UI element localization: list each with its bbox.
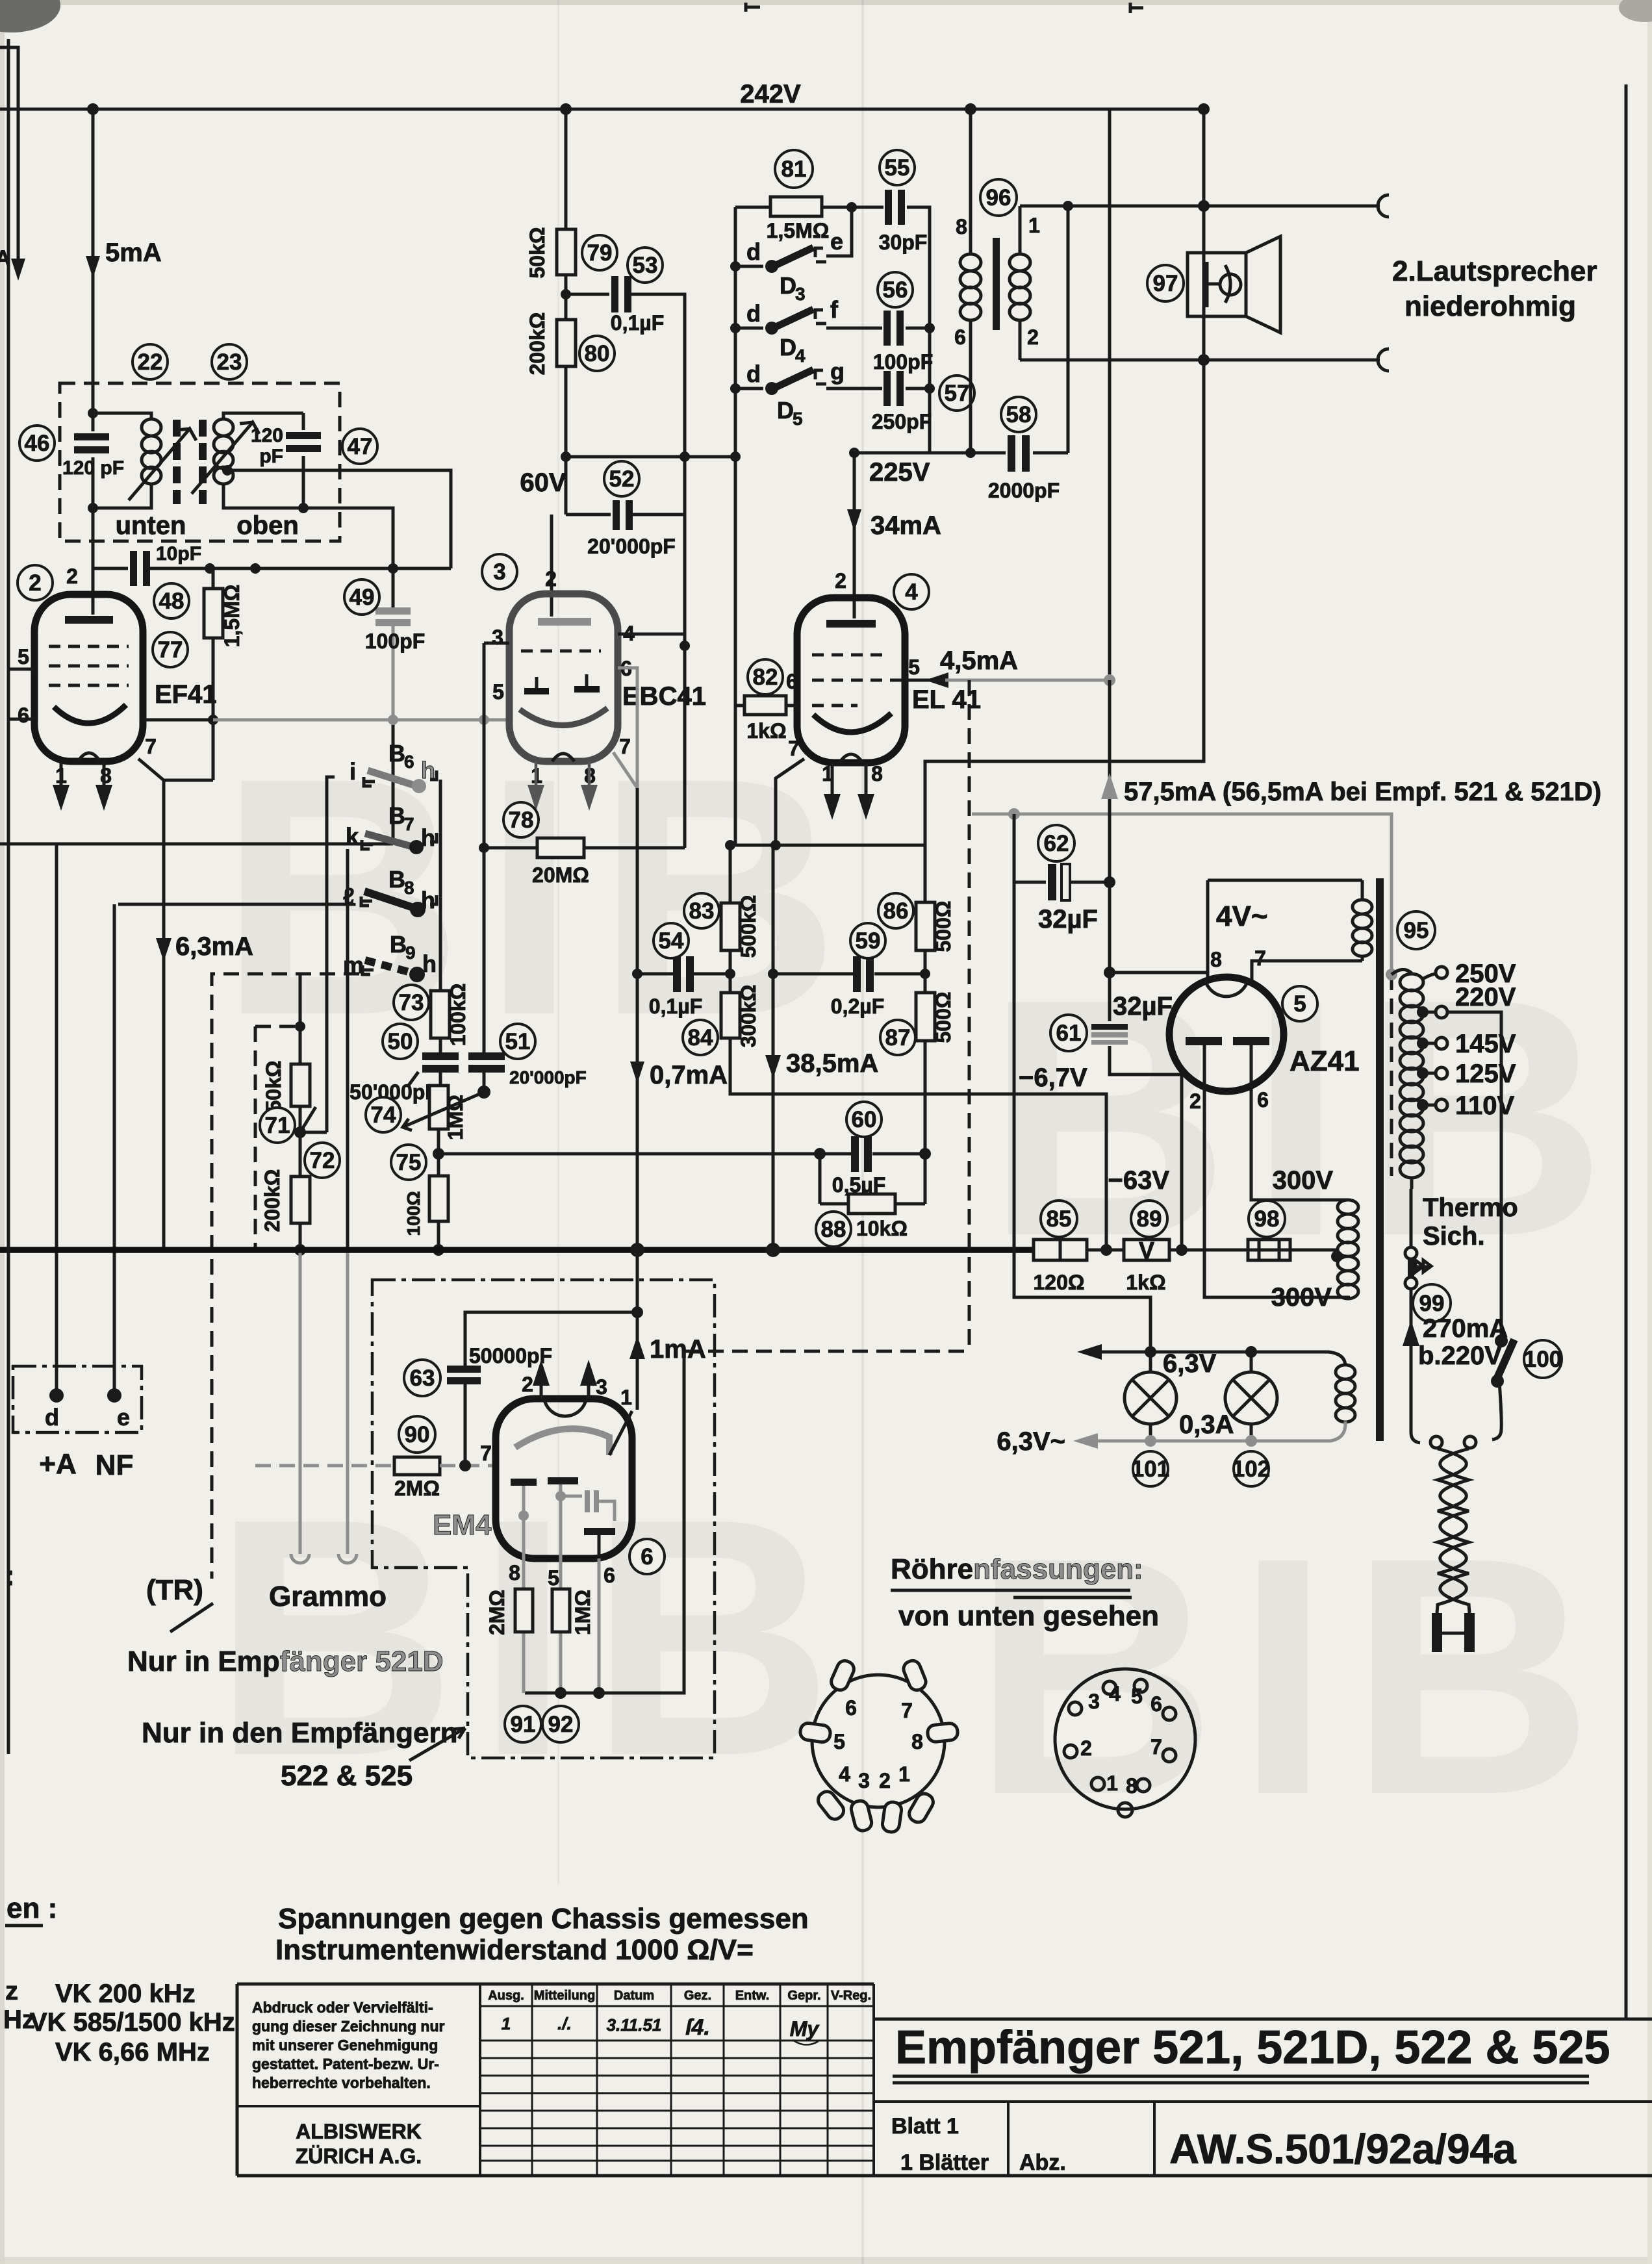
octal socket bbox=[1055, 1669, 1195, 1817]
wire B8 line to left bbox=[118, 903, 354, 904]
mains plug bbox=[1437, 1613, 1469, 1652]
node bus x462 bbox=[294, 1244, 306, 1256]
svg-text:+A: +A bbox=[39, 1448, 76, 1480]
svg-text:3: 3 bbox=[492, 626, 503, 649]
capacitor C52 20000pF bbox=[611, 500, 633, 530]
svg-text:56: 56 bbox=[883, 277, 908, 303]
capacitor C61 32uF bbox=[1110, 973, 1182, 1250]
svg-text:50kΩ: 50kΩ bbox=[526, 227, 549, 278]
wire 57.5mA arrow bbox=[1108, 680, 1112, 814]
svg-text:niederohmig: niederohmig bbox=[1404, 290, 1576, 322]
twisted mains flex bbox=[1437, 1449, 1466, 1613]
wire B switch right rail bbox=[439, 786, 442, 991]
inductor HV winding upper 300V bbox=[1338, 1200, 1358, 1256]
revision table columns bbox=[480, 1984, 874, 2176]
svg-text:NF: NF bbox=[95, 1449, 134, 1481]
svg-text:57,5mA (56,5mA bei Empf. 521: 57,5mA (56,5mA bei Empf. 521 & 521D) bbox=[1124, 778, 1601, 806]
svg-text:5: 5 bbox=[548, 1566, 559, 1590]
svg-text:61: 61 bbox=[1056, 1021, 1082, 1046]
tap 250V bbox=[1421, 974, 1436, 980]
wire HT filter node column bbox=[1014, 814, 1150, 1352]
svg-text:0,7mA: 0,7mA bbox=[650, 1061, 728, 1089]
svg-text:5: 5 bbox=[1131, 1685, 1143, 1708]
node junction R81 right C55 bbox=[846, 202, 857, 212]
wire AZ41 pin2 HT out bbox=[1204, 1089, 1350, 1297]
svg-text:Nur in Empfänger 521D: Nur in Empfänger 521D bbox=[127, 1646, 444, 1677]
svg-text:heberrechte vorbehalten.: heberrechte vorbehalten. bbox=[252, 2074, 431, 2091]
tap 110V bbox=[1417, 1099, 1429, 1111]
svg-text:1MΩ: 1MΩ bbox=[571, 1590, 594, 1635]
svg-text:k: k bbox=[346, 823, 359, 850]
svg-text:4: 4 bbox=[1109, 1682, 1121, 1705]
svg-text:8: 8 bbox=[1210, 948, 1222, 971]
EM4 target arc gray bbox=[515, 1429, 609, 1455]
svg-text:3: 3 bbox=[1088, 1690, 1100, 1713]
svg-text:1kΩ: 1kΩ bbox=[1126, 1271, 1165, 1294]
svg-text:32µF: 32µF bbox=[1038, 905, 1098, 934]
svg-text:100pF: 100pF bbox=[873, 350, 933, 374]
svg-text:1kΩ: 1kΩ bbox=[746, 719, 786, 743]
svg-text:3: 3 bbox=[795, 284, 806, 304]
page border right bbox=[1625, 84, 1628, 2020]
wire AZ41 pin6 to HV winding top bbox=[1251, 1090, 1348, 1200]
EM4 top bump bbox=[544, 1400, 586, 1416]
svg-text:57: 57 bbox=[945, 381, 970, 406]
node junction primary pin6 bbox=[965, 448, 976, 458]
svg-text:5: 5 bbox=[492, 680, 504, 704]
svg-text:8: 8 bbox=[911, 1730, 923, 1753]
AZ41 filament arc bbox=[1205, 980, 1248, 997]
node junction cap53 wire at y703 bbox=[680, 452, 690, 462]
wire 220V feed to switch bbox=[1447, 1012, 1501, 1341]
tube AZ41 V5 bbox=[1169, 977, 1284, 1091]
loudspeaker LS97 bbox=[1188, 253, 1246, 316]
node rail D3 bbox=[730, 261, 741, 272]
svg-text:120Ω: 120Ω bbox=[1033, 1271, 1084, 1294]
svg-text:2: 2 bbox=[879, 1769, 891, 1792]
node C51 to wiper bbox=[477, 1086, 490, 1099]
capacitor C56 100pF bbox=[882, 311, 906, 346]
svg-text:Röhrenfassungen:: Röhrenfassungen: bbox=[891, 1553, 1143, 1585]
capacitor C55 30pF bbox=[883, 190, 907, 225]
resistor R48 1.5M bbox=[212, 568, 215, 780]
svg-text:89: 89 bbox=[1137, 1206, 1162, 1232]
svg-text:AZ41: AZ41 bbox=[1290, 1045, 1360, 1077]
svg-text:6: 6 bbox=[404, 752, 414, 772]
svg-text:270mA: 270mA bbox=[1423, 1314, 1508, 1343]
revision header row bbox=[488, 1989, 871, 2003]
svg-text:6: 6 bbox=[1257, 1088, 1269, 1112]
svg-text:D: D bbox=[780, 272, 796, 299]
svg-text:Sich.: Sich. bbox=[1423, 1222, 1485, 1251]
svg-text:2: 2 bbox=[835, 569, 846, 592]
svg-text:V-Reg.: V-Reg. bbox=[831, 1989, 871, 2003]
svg-text:8: 8 bbox=[509, 1561, 520, 1584]
svg-text:62: 62 bbox=[1044, 831, 1069, 856]
page corner tick marks bbox=[746, 3, 1143, 13]
svg-text:AW.S.501/92a/94a: AW.S.501/92a/94a bbox=[1169, 2126, 1516, 2172]
EM4 pin1 diagonal bbox=[609, 1411, 632, 1455]
node bus x675 bbox=[433, 1244, 444, 1256]
resistor R80 200k bbox=[557, 320, 576, 366]
svg-text:9: 9 bbox=[405, 943, 416, 963]
svg-text:Hz: Hz bbox=[3, 2005, 35, 2034]
svg-text:2MΩ: 2MΩ bbox=[485, 1590, 509, 1635]
wire B9 dashed to TR bbox=[212, 974, 359, 1579]
tube EF41 V2 bbox=[34, 594, 143, 761]
tube EL41 V4 bbox=[797, 598, 905, 763]
wire EM4 supply loop bbox=[465, 1250, 637, 1466]
resistor R90 2M on grid line bbox=[255, 1464, 394, 1468]
wire screen divider R79 R80 chain bbox=[565, 109, 568, 515]
wire AVC return via C49 column bbox=[0, 720, 393, 844]
svg-text:46: 46 bbox=[25, 431, 50, 456]
svg-text:VK 200 kHz: VK 200 kHz bbox=[55, 1979, 196, 2008]
wire EF41 cathode arrows pins 1 8 bbox=[61, 761, 104, 787]
svg-text:49: 49 bbox=[349, 585, 375, 610]
svg-text:Blatt 1: Blatt 1 bbox=[891, 2114, 959, 2139]
svg-text:7: 7 bbox=[404, 814, 414, 834]
lamp LA102 bbox=[1250, 1352, 1253, 1441]
node rail y703 bbox=[730, 452, 741, 462]
svg-text:500Ω: 500Ω bbox=[932, 991, 955, 1043]
svg-text:Ausg.: Ausg. bbox=[488, 1989, 524, 2003]
svg-text:53: 53 bbox=[633, 253, 658, 278]
thermo fuse bbox=[1410, 1189, 1413, 1247]
node R83 R84 bbox=[725, 969, 735, 979]
resistor R84 300k bbox=[721, 993, 740, 1038]
wire 242V bus bbox=[0, 109, 1204, 680]
svg-text:0,1µF: 0,1µF bbox=[649, 995, 702, 1018]
svg-text:3: 3 bbox=[596, 1375, 607, 1399]
svg-text:220V: 220V bbox=[1455, 983, 1516, 1011]
resistor R85 120 on bus bbox=[1034, 1240, 1087, 1260]
EF41 cathode bbox=[54, 705, 126, 723]
tube EM4 V6 bbox=[496, 1399, 632, 1558]
svg-text:98: 98 bbox=[1254, 1206, 1280, 1232]
svg-text:300V: 300V bbox=[1271, 1283, 1332, 1312]
wire feedback row bbox=[735, 844, 925, 847]
svg-text:Grammo: Grammo bbox=[269, 1581, 387, 1612]
transformer T96 core bbox=[993, 238, 1000, 330]
svg-text:100pF: 100pF bbox=[365, 630, 425, 653]
svg-text:22: 22 bbox=[138, 350, 163, 375]
svg-text:B: B bbox=[388, 802, 405, 829]
switch D5 bbox=[735, 370, 826, 388]
svg-text:1: 1 bbox=[898, 1762, 910, 1786]
svg-text:EM4: EM4 bbox=[433, 1509, 492, 1541]
svg-text:e: e bbox=[117, 1404, 130, 1431]
inductor L23 secondary bbox=[223, 413, 303, 508]
svg-text:85: 85 bbox=[1047, 1206, 1072, 1232]
resistor R81 1.5M bbox=[770, 197, 822, 216]
svg-text:V: V bbox=[1139, 1237, 1154, 1264]
svg-text:ZÜRICH A.G.: ZÜRICH A.G. bbox=[296, 2144, 422, 2168]
svg-text:Datum: Datum bbox=[614, 1989, 654, 2003]
svg-text:2: 2 bbox=[1189, 1089, 1201, 1113]
svg-text:g: g bbox=[830, 358, 845, 385]
svg-text:1 Blätter: 1 Blätter bbox=[900, 2150, 989, 2175]
svg-text:120 pF: 120 pF bbox=[62, 457, 124, 479]
wire rectifier cathode column bbox=[1110, 814, 1208, 981]
capacitor C47 120pF bbox=[302, 413, 305, 508]
terminal box d e bbox=[13, 1366, 142, 1432]
svg-text:500Ω: 500Ω bbox=[932, 900, 955, 952]
node junction at y703 bbox=[561, 452, 571, 462]
svg-text:80: 80 bbox=[585, 341, 610, 366]
EM4 dash-dot enclosure bbox=[372, 1280, 715, 1758]
svg-text:Abdruck oder Vervielfälti-: Abdruck oder Vervielfälti- bbox=[252, 1999, 433, 2016]
svg-text:Empfänger 521, 521D, 522 & 52: Empfänger 521, 521D, 522 & 525 bbox=[895, 2022, 1610, 2074]
wire screen 4.5mA gray bbox=[905, 679, 930, 682]
svg-text:3.11.51: 3.11.51 bbox=[607, 2015, 662, 2035]
svg-text:4: 4 bbox=[839, 1762, 850, 1786]
transformer T96 output: primary bbox=[969, 109, 972, 253]
wire mains lead left bbox=[1411, 1289, 1420, 1443]
svg-text:d: d bbox=[746, 361, 761, 387]
svg-text:50kΩ: 50kΩ bbox=[262, 1060, 285, 1112]
wire B6 wiper line down to volume pot bbox=[327, 777, 335, 1132]
EF41 grids dashed bbox=[49, 646, 129, 685]
svg-text:250pF: 250pF bbox=[872, 410, 932, 433]
svg-text:2000pF: 2000pF bbox=[988, 479, 1060, 502]
svg-text:B: B bbox=[388, 740, 405, 767]
resistor R73 100k bbox=[431, 991, 450, 1038]
svg-text:EBC41: EBC41 bbox=[622, 682, 706, 711]
svg-text:32µF: 32µF bbox=[1113, 992, 1173, 1021]
svg-text:90: 90 bbox=[405, 1422, 430, 1447]
svg-text:i: i bbox=[349, 758, 356, 785]
svg-text:1: 1 bbox=[1028, 214, 1040, 237]
wire EM4 pin6 down bbox=[598, 1558, 601, 1693]
svg-text:242V: 242V bbox=[740, 80, 801, 108]
svg-text:5: 5 bbox=[908, 655, 920, 679]
wire EL41 cathode arrows bbox=[832, 763, 866, 795]
svg-text:38,5mA: 38,5mA bbox=[786, 1049, 878, 1078]
capacitor C 10pF bbox=[128, 551, 150, 586]
svg-text:8: 8 bbox=[956, 215, 967, 238]
svg-text:110V: 110V bbox=[1455, 1091, 1515, 1120]
capacitor C59 0.2uF bbox=[773, 973, 925, 976]
svg-text:100Ω: 100Ω bbox=[403, 1191, 424, 1236]
svg-text:300kΩ: 300kΩ bbox=[737, 985, 760, 1048]
resistor R72 200k bbox=[291, 1177, 310, 1223]
svg-text:10kΩ: 10kΩ bbox=[856, 1217, 908, 1240]
svg-text:Instrumentenwiderstand 1000 Ω: Instrumentenwiderstand 1000 Ω/V= bbox=[275, 1934, 754, 1966]
svg-text:225V: 225V bbox=[869, 458, 930, 487]
svg-text:84: 84 bbox=[688, 1025, 713, 1050]
svg-text:unten: unten bbox=[116, 511, 186, 540]
svg-text:83: 83 bbox=[689, 898, 715, 924]
inductor heater winding 6.3V bbox=[1336, 1365, 1355, 1422]
capacitor C46 120pF bbox=[74, 431, 109, 457]
svg-text:0,3A: 0,3A bbox=[1179, 1410, 1234, 1439]
EBC41 grid dashed bbox=[521, 650, 601, 653]
wire top tone row bbox=[735, 207, 930, 453]
svg-text:120: 120 bbox=[251, 425, 283, 446]
svg-text:6,3mA: 6,3mA bbox=[175, 932, 253, 961]
svg-text:55: 55 bbox=[885, 155, 910, 181]
svg-text:1,5MΩ: 1,5MΩ bbox=[220, 585, 244, 648]
svg-text:200kΩ: 200kΩ bbox=[261, 1169, 284, 1232]
svg-text:2: 2 bbox=[1080, 1736, 1092, 1760]
svg-text:92: 92 bbox=[548, 1712, 574, 1737]
svg-text:48: 48 bbox=[159, 589, 184, 614]
svg-text:6: 6 bbox=[786, 670, 798, 693]
revision entries bbox=[502, 2014, 820, 2041]
svg-text:d: d bbox=[746, 300, 761, 327]
svg-text:77: 77 bbox=[158, 637, 183, 663]
node bus junction x871 bbox=[560, 103, 572, 115]
wire IF bottom to cap49 riser bbox=[303, 508, 393, 566]
svg-text:VK 6,66 MHz: VK 6,66 MHz bbox=[55, 2038, 210, 2067]
svg-text:6,3V: 6,3V bbox=[1163, 1349, 1217, 1378]
tap 145V bbox=[1417, 1037, 1429, 1049]
lamp LA101 bbox=[1149, 1352, 1152, 1441]
svg-text:51: 51 bbox=[505, 1029, 531, 1054]
node rail D4 bbox=[730, 323, 741, 333]
node bus junction x1494 bbox=[965, 103, 976, 115]
EL41 anode bar bbox=[826, 620, 876, 628]
capacitor C50 50000pF bbox=[439, 1071, 442, 1086]
wire anode supply 225V node bbox=[854, 453, 1068, 618]
svg-text:pF: pF bbox=[259, 446, 283, 467]
svg-text:50: 50 bbox=[388, 1029, 413, 1054]
wire cap52 line to EBC41 anode bbox=[552, 515, 685, 617]
wire cap53 branch bbox=[566, 294, 685, 848]
svg-text:b.220V: b.220V bbox=[1418, 1342, 1502, 1370]
wire antenna stub A top left bbox=[0, 47, 18, 266]
wire gray AVC line to EBC41 bbox=[213, 719, 509, 722]
svg-text:4,5mA: 4,5mA bbox=[940, 646, 1018, 675]
EBC41 cathode bbox=[520, 708, 607, 726]
wire bias line -6.7V bbox=[730, 1038, 1106, 1250]
svg-text:1mA: 1mA bbox=[650, 1335, 706, 1364]
resistor R88 10k bbox=[820, 1202, 925, 1206]
svg-text:5: 5 bbox=[793, 409, 803, 429]
node HV center tap bbox=[1331, 1251, 1343, 1262]
node bus x981 bbox=[630, 1243, 644, 1257]
svg-text:2.Lautsprecher: 2.Lautsprecher bbox=[1392, 255, 1597, 287]
EBC41 pin stubs bbox=[484, 642, 509, 645]
wire gray HT rail from rectifier bbox=[972, 814, 1391, 974]
capacitor C62 32uF bbox=[1014, 881, 1110, 884]
resistor R78 20M bbox=[537, 838, 584, 858]
svg-text:1,5MΩ: 1,5MΩ bbox=[767, 219, 830, 242]
transformer T95 core bbox=[1376, 878, 1384, 1441]
svg-text:23: 23 bbox=[217, 350, 242, 375]
svg-text:100: 100 bbox=[1524, 1347, 1562, 1372]
svg-text:2: 2 bbox=[29, 570, 41, 596]
tap 125V bbox=[1417, 1067, 1429, 1079]
wire grid line 10pF row bbox=[93, 567, 451, 570]
rimlock socket bbox=[799, 1659, 958, 1833]
inductor HV winding lower 300V bbox=[1338, 1256, 1358, 1299]
svg-text:300V: 300V bbox=[1273, 1166, 1334, 1195]
svg-text:8: 8 bbox=[100, 764, 112, 787]
svg-text:6: 6 bbox=[954, 325, 966, 349]
svg-text:34mA: 34mA bbox=[870, 511, 941, 540]
svg-text:97: 97 bbox=[1153, 271, 1178, 296]
wire B7 line down to grammo right bbox=[346, 849, 349, 1250]
svg-text:6: 6 bbox=[1150, 1692, 1162, 1716]
capacitor C58 2000pF bbox=[1006, 435, 1033, 472]
svg-text:(TR): (TR) bbox=[146, 1574, 203, 1606]
svg-text:7: 7 bbox=[145, 735, 157, 758]
node R83 top bbox=[725, 840, 735, 850]
svg-text:5: 5 bbox=[833, 1730, 845, 1753]
terminal hook bottom bbox=[1378, 349, 1389, 371]
svg-text:B: B bbox=[388, 866, 405, 893]
svg-text:73: 73 bbox=[399, 990, 424, 1015]
svg-text:z: z bbox=[5, 1977, 18, 2005]
svg-text:58: 58 bbox=[1006, 402, 1032, 427]
svg-text:99: 99 bbox=[1419, 1291, 1445, 1316]
node speaker line junctions bbox=[1198, 200, 1210, 212]
svg-text:0,2µF: 0,2µF bbox=[831, 995, 884, 1018]
svg-text:71: 71 bbox=[265, 1113, 290, 1138]
svg-text:7: 7 bbox=[1254, 947, 1266, 970]
inductor filament winding 4V bbox=[1361, 880, 1364, 961]
wire EF41 pin7 to 6.3mA drop bbox=[138, 759, 213, 1250]
svg-text:1: 1 bbox=[620, 1386, 632, 1409]
svg-text:101: 101 bbox=[1132, 1456, 1169, 1482]
svg-text:6: 6 bbox=[604, 1564, 615, 1587]
node below R74 bbox=[437, 1129, 440, 1176]
svg-text:mit unserer Genehmigung: mit unserer Genehmigung bbox=[252, 2037, 438, 2054]
node C47 bottom bbox=[298, 503, 309, 513]
resistor R92 1M bbox=[559, 1558, 563, 1693]
svg-text:4: 4 bbox=[795, 346, 806, 366]
wire speaker top line bbox=[1020, 205, 1380, 208]
svg-text:−6,7V: −6,7V bbox=[1019, 1063, 1087, 1092]
svg-text:Spannungen gegen Chassis ge: Spannungen gegen Chassis gemessen bbox=[278, 1903, 809, 1935]
EM4 internal wiring gray bbox=[524, 1484, 582, 1558]
node IF box top bbox=[88, 408, 98, 418]
wire EBC41 pin7 diagonal and AF line down bbox=[613, 752, 637, 788]
AZ41 pin wires bbox=[1204, 1045, 1251, 1090]
inductor mains primary with taps bbox=[1391, 969, 1412, 1189]
svg-text:4V~: 4V~ bbox=[1216, 900, 1268, 932]
EBC41 diode plates bbox=[524, 689, 600, 691]
potentiometer R71 50k bbox=[299, 974, 302, 1177]
capacitor C49 100pF gray bbox=[392, 566, 395, 607]
svg-text:20'000pF: 20'000pF bbox=[509, 1067, 587, 1087]
svg-text:81: 81 bbox=[782, 157, 807, 182]
capacitor C53 0.1uF bbox=[609, 276, 631, 312]
svg-text:74: 74 bbox=[371, 1102, 396, 1128]
svg-text:e: e bbox=[830, 228, 843, 255]
svg-text:60: 60 bbox=[852, 1107, 877, 1132]
svg-text:Nur in den Empfängern: Nur in den Empfängern bbox=[142, 1717, 457, 1749]
svg-text:6: 6 bbox=[18, 704, 29, 727]
svg-text:59: 59 bbox=[856, 928, 881, 954]
svg-text:Abz.: Abz. bbox=[1019, 2150, 1066, 2175]
IF transformer 22/23 dashed box bbox=[60, 383, 340, 541]
svg-text:VK 585/1500 kHz: VK 585/1500 kHz bbox=[30, 2008, 235, 2037]
svg-text:./.: ./. bbox=[557, 2014, 572, 2033]
svg-text:63: 63 bbox=[410, 1366, 435, 1391]
terminal hook top bbox=[1378, 195, 1389, 217]
EF41 side stubs bbox=[9, 669, 34, 719]
node bus x1190 bbox=[766, 1243, 780, 1257]
svg-text:54: 54 bbox=[659, 928, 684, 954]
svg-text:Thermo: Thermo bbox=[1423, 1193, 1518, 1222]
svg-text:200kΩ: 200kΩ bbox=[526, 312, 549, 375]
wire EBC41 cathode arrows pins 1 8 gray bbox=[536, 761, 589, 787]
tube EBC41 V3 bbox=[509, 594, 618, 761]
svg-text:5mA: 5mA bbox=[105, 238, 162, 267]
